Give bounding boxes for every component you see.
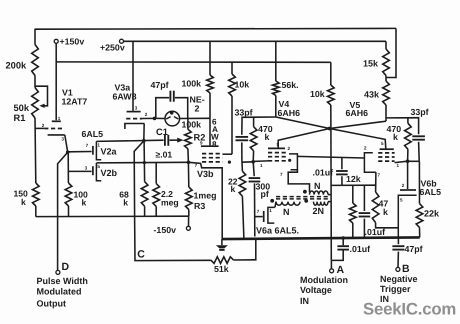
capacitor 47pf plates [169, 91, 171, 102]
svg-text:.01uf: .01uf [313, 167, 334, 177]
capacitor 33pf right [412, 135, 425, 137]
wire 10k left down [231, 96, 233, 154]
svg-text:33pf: 33pf [235, 107, 253, 117]
tube V6b bracket [398, 195, 416, 237]
pot R2 arrow head [177, 138, 183, 143]
wire 470k right down [407, 149, 409, 161]
svg-text:R3: R3 [194, 201, 205, 211]
svg-text:N: N [314, 181, 321, 191]
wire X vertical upper [330, 105, 332, 129]
svg-text:V3b: V3b [197, 169, 214, 179]
svg-text:5: 5 [277, 142, 280, 147]
svg-text:+250v: +250v [100, 43, 125, 53]
capacitor .01uf A [337, 245, 349, 247]
svg-text:200k: 200k [6, 60, 28, 70]
wire V2b line to V3b cathode [188, 162, 222, 239]
terminal +250v [120, 39, 124, 43]
tube V5 grid dashes [378, 152, 394, 154]
wire 22k right hang [418, 161, 420, 203]
tube V3a cathode [125, 124, 144, 130]
wire 2.2meg to bus [155, 206, 157, 216]
svg-text:33pf: 33pf [411, 107, 429, 117]
wire 15k hang [385, 41, 387, 49]
wire V6a plate feed [255, 216, 263, 218]
pot R1 wiper loop [35, 86, 47, 106]
svg-text:-150v: -150v [154, 225, 177, 235]
wire 100k to node [209, 93, 211, 118]
wire R3 top [187, 162, 189, 187]
svg-text:Pulse Width: Pulse Width [37, 276, 88, 286]
tube V2b plate tick [92, 166, 94, 175]
dot 2N [304, 199, 308, 203]
svg-text:6AH6: 6AH6 [278, 108, 301, 118]
resistor 1meg R3 [186, 187, 193, 210]
svg-text:1: 1 [397, 163, 400, 168]
tube V2a top line / C1 node wire [96, 140, 163, 141]
svg-text:SeekIC.com: SeekIC.com [363, 300, 456, 319]
svg-text:Voltage: Voltage [300, 285, 332, 295]
svg-text:22k: 22k [424, 209, 440, 219]
svg-text:47pf: 47pf [405, 244, 423, 254]
wire junction to V2a plate [68, 151, 92, 153]
node V5 grid [406, 159, 410, 163]
wire 43k down [385, 105, 387, 121]
wire V4 node left [242, 117, 276, 122]
svg-text:Modulation: Modulation [300, 275, 348, 285]
wire 51k to bus [234, 239, 256, 260]
svg-text:47pf: 47pf [151, 80, 169, 90]
wire N upper right [328, 194, 331, 196]
wire V6b plate riser [407, 161, 409, 189]
svg-text:C: C [137, 249, 145, 261]
svg-text:C1: C1 [156, 127, 168, 137]
wire 100k to bus [68, 206, 70, 217]
svg-text:k: k [231, 184, 236, 194]
wire 33pf node link [408, 160, 420, 162]
svg-text:3: 3 [61, 137, 64, 142]
wire 470k R hang [407, 118, 409, 123]
resistor 2.2meg [153, 184, 160, 207]
wire V1 cathode to node [65, 135, 68, 152]
tube V6a bracket [268, 207, 275, 223]
resistor 68k [141, 182, 148, 207]
svg-text:pf: pf [261, 189, 269, 199]
wire C1 to arrow [170, 139, 179, 141]
capacitor 47pf top [155, 117, 156, 119]
tube V5 plate bar [380, 148, 394, 150]
svg-text:+150v: +150v [60, 37, 85, 47]
wire C line [135, 216, 211, 261]
svg-text:.01uf: .01uf [365, 227, 386, 237]
svg-text:k: k [383, 207, 388, 217]
svg-text:8: 8 [212, 140, 217, 149]
wire 470k left down [252, 151, 254, 162]
svg-text:43k: 43k [364, 89, 380, 99]
svg-text:IN: IN [300, 296, 309, 306]
resistor 22k right [416, 204, 423, 228]
svg-text:10k: 10k [235, 80, 250, 90]
svg-text:3: 3 [135, 106, 138, 111]
wire cap A to bus [342, 238, 344, 245]
svg-text:100k: 100k [182, 120, 202, 130]
wire N lower left lead [275, 202, 276, 208]
capacitor .01uf top [341, 158, 343, 169]
wire top rail right drop [386, 28, 396, 77]
svg-text:6AL5: 6AL5 [82, 129, 104, 139]
svg-text:Trigger: Trigger [380, 284, 411, 294]
wire 22k right to bus [419, 227, 421, 237]
svg-text:2: 2 [288, 146, 291, 151]
bus ground [222, 237, 420, 239]
svg-text:≥.01: ≥.01 [156, 149, 173, 159]
svg-text:7: 7 [86, 143, 89, 148]
tube V3a grid dashes [126, 118, 142, 120]
tube V6a plate tick [263, 211, 265, 222]
svg-text:2: 2 [364, 145, 367, 150]
svg-text:D: D [62, 261, 70, 273]
tube V1 grid dashes [44, 128, 63, 130]
tube V6b plate bar [400, 189, 416, 191]
terminal A [330, 269, 334, 273]
wire V5 plate node right [386, 118, 419, 135]
svg-text:1meg: 1meg [194, 191, 217, 201]
wire X vertical lower / A line [330, 129, 332, 261]
wire A elbow [331, 251, 343, 261]
resistor 56k [273, 81, 280, 96]
svg-text:51k: 51k [214, 264, 229, 274]
NE-2 electrodes [170, 111, 174, 115]
wire 22k left to bus [242, 196, 244, 239]
wire V3a plate riser [132, 41, 134, 111]
svg-text:k: k [265, 132, 270, 142]
svg-text:2: 2 [145, 112, 148, 117]
capacitor mid .22 [363, 185, 365, 211]
svg-text:B: B [402, 263, 410, 275]
svg-text:N: N [283, 207, 290, 217]
wire V3a cathode down [143, 124, 145, 141]
wire 10k left hang [231, 62, 233, 74]
transformer winding 2N [314, 202, 329, 206]
node V1 grid tap [35, 127, 44, 129]
svg-text:6AH6: 6AH6 [346, 108, 369, 118]
svg-text:2: 2 [42, 123, 45, 128]
wire B drop [397, 238, 399, 245]
resistor 100k (V2 cathode) [65, 183, 72, 206]
transformer core [276, 196, 328, 198]
wire V4 grid entry [253, 160, 268, 163]
wire V3b plate riser [209, 118, 211, 145]
resistor 51k horizontal [211, 257, 234, 264]
wire junction to D line [58, 152, 68, 270]
potentiometer R1 50k [32, 88, 39, 119]
wire 68k line [143, 141, 146, 182]
svg-text:3: 3 [85, 166, 88, 171]
terminal +150v [54, 39, 58, 43]
resistor 43k [383, 81, 390, 105]
wire +150v drop [55, 43, 57, 120]
node V1 cathode junction [66, 150, 70, 154]
wire bulb to 100k col [180, 117, 210, 119]
wire V5 cathode to 47k [375, 172, 377, 192]
svg-text:Modulated: Modulated [37, 287, 82, 297]
svg-text:1: 1 [269, 208, 272, 213]
wire 56k down [275, 96, 277, 118]
wire 12k top [352, 185, 354, 203]
pot R1 arrow head [39, 104, 44, 108]
svg-text:k: k [393, 132, 398, 142]
svg-text:10k: 10k [310, 89, 325, 99]
wire +250v rail [124, 40, 387, 42]
wire 47pf left [156, 98, 169, 119]
wire 12k to bus [352, 223, 354, 238]
svg-text:k: k [123, 198, 128, 208]
svg-text:6AL5: 6AL5 [420, 187, 442, 197]
svg-text:5: 5 [381, 141, 384, 146]
tube V2b envelope bracket [96, 163, 101, 181]
resistor 470k right [405, 123, 412, 149]
transformer winding N upper [310, 191, 329, 195]
svg-text:meg: meg [161, 198, 179, 208]
svg-text:7: 7 [378, 172, 381, 177]
node C1 [142, 139, 146, 143]
svg-text:2N: 2N [313, 206, 325, 216]
wire 10k right hang [330, 62, 332, 85]
svg-text:5: 5 [400, 198, 403, 203]
svg-text:1: 1 [260, 163, 263, 168]
tube V3b grid dashes [202, 153, 223, 155]
svg-text:V6a 6AL5.: V6a 6AL5. [256, 225, 299, 235]
wire V5 grid entry [395, 161, 408, 162]
resistor 12k [350, 203, 357, 223]
svg-text:1: 1 [58, 116, 61, 121]
wire 47k bottom [376, 223, 399, 228]
svg-text:k: k [82, 197, 87, 207]
node V2b top crossing [143, 161, 146, 164]
capacitor 300pf [253, 162, 254, 176]
wire 56k hang [275, 41, 277, 81]
capacitor C1 plates [164, 135, 166, 146]
wire 150k to bus [35, 206, 37, 217]
node X [328, 127, 332, 131]
wire node to bulb [156, 117, 165, 119]
svg-text:V2b: V2b [101, 168, 118, 178]
tube V1 cathode [48, 134, 65, 136]
svg-text:2: 2 [402, 183, 405, 188]
tube V4 cathode bracket [289, 154, 297, 170]
svg-text:7: 7 [280, 172, 283, 177]
tube V5 cathode bracket [364, 153, 376, 173]
resistor 15k [383, 49, 390, 76]
svg-text:100k: 100k [182, 78, 202, 88]
resistor 100k top [207, 75, 214, 93]
wire +150v rail y62 [56, 61, 331, 63]
resistor 22k left [239, 171, 246, 196]
svg-text:15k: 15k [363, 58, 379, 68]
svg-text:7: 7 [195, 163, 198, 168]
wire 68k to bus [144, 206, 146, 216]
resistor 200k [32, 45, 39, 76]
potentiometer R2 100k [185, 129, 192, 148]
tube V4 grid dashes [268, 152, 286, 154]
neon bulb NE-2 [165, 111, 180, 126]
tube V4 plate bar [268, 147, 285, 149]
wire V2a diag [134, 141, 144, 216]
wire tee to V2b plate [68, 170, 91, 172]
node R3 top [187, 161, 191, 165]
resistor 10k right [328, 85, 335, 105]
wire cross L1 (56k node to V5 plate) [276, 117, 386, 149]
svg-text:12AT7: 12AT7 [62, 96, 88, 106]
tube V3b plate bar [201, 145, 219, 147]
resistor 470k left [250, 127, 257, 151]
wire 200k to 50k [34, 76, 36, 88]
wire R2 bottom to node [187, 149, 190, 163]
svg-text:Output: Output [37, 299, 67, 309]
wire 185 bus [331, 184, 376, 186]
svg-text:k: k [21, 197, 26, 207]
svg-text:V2a: V2a [101, 146, 118, 156]
wire junction down [67, 152, 69, 183]
pin 6 dot V3b [228, 161, 231, 164]
wire 47pf right [175, 98, 188, 119]
wire cross L2 (43k to V4 plate) [278, 121, 386, 147]
svg-text:9: 9 [200, 140, 203, 145]
ground V3b [221, 239, 223, 245]
tube V3a plate bar [127, 111, 141, 113]
wire 33pf-470k link [242, 161, 254, 163]
wire 470k L hang [253, 117, 255, 127]
node V4 grid [251, 160, 255, 164]
tube V1 plate bar [52, 120, 61, 122]
svg-text:50k: 50k [14, 103, 30, 113]
wire -150v drop [188, 216, 190, 226]
dot N lower [270, 199, 274, 203]
resistor 10k left [229, 74, 236, 96]
tube V2b top line to R3 node [96, 161, 188, 164]
wire 15k-43k link [385, 76, 387, 82]
svg-text:2: 2 [195, 103, 200, 113]
svg-text:56k.: 56k. [282, 80, 299, 90]
node bus cap A [341, 236, 345, 240]
wire 22k left hang [241, 162, 243, 171]
wire R2 top [187, 118, 189, 129]
resistor 47k [372, 192, 379, 223]
wire V4 cathode long [297, 156, 364, 158]
svg-text:R1: R1 [14, 113, 26, 123]
node 47pf [153, 117, 157, 121]
svg-text:Negative: Negative [380, 274, 418, 284]
wire R3 to bus [188, 210, 190, 217]
tube V2a envelope bracket [96, 141, 101, 159]
wire V3a grid to node [142, 117, 155, 119]
wire V4 cathode step to xfmr [288, 170, 309, 193]
svg-text:A: A [337, 264, 345, 276]
capacitor 33pf left [241, 122, 243, 135]
terminal -150v [186, 226, 190, 230]
pin 6 dot V4 [288, 159, 291, 162]
resistor 150k [33, 183, 40, 206]
wire left rail top [34, 29, 36, 45]
dot N upper [303, 190, 307, 194]
wire left rail mid [34, 118, 37, 183]
terminal B [396, 267, 400, 271]
wire top rail [35, 27, 396, 30]
wire 100k top hang [209, 41, 211, 75]
bus -150v row [36, 215, 189, 217]
wire V3b grid out [223, 153, 232, 155]
svg-text:12k: 12k [346, 174, 361, 184]
terminal D [56, 270, 60, 274]
tube V2a plate tick [92, 146, 94, 155]
transformer winding N lower [276, 202, 300, 206]
wire 2N right [328, 201, 331, 203]
wire 47pf B to terminal [397, 252, 399, 268]
capacitor 47pf B [392, 245, 404, 247]
svg-text:.01uf: .01uf [350, 244, 371, 254]
wire A terminal drop [330, 260, 332, 268]
svg-text:7: 7 [257, 209, 260, 214]
wire 2.2meg hang [155, 163, 157, 184]
